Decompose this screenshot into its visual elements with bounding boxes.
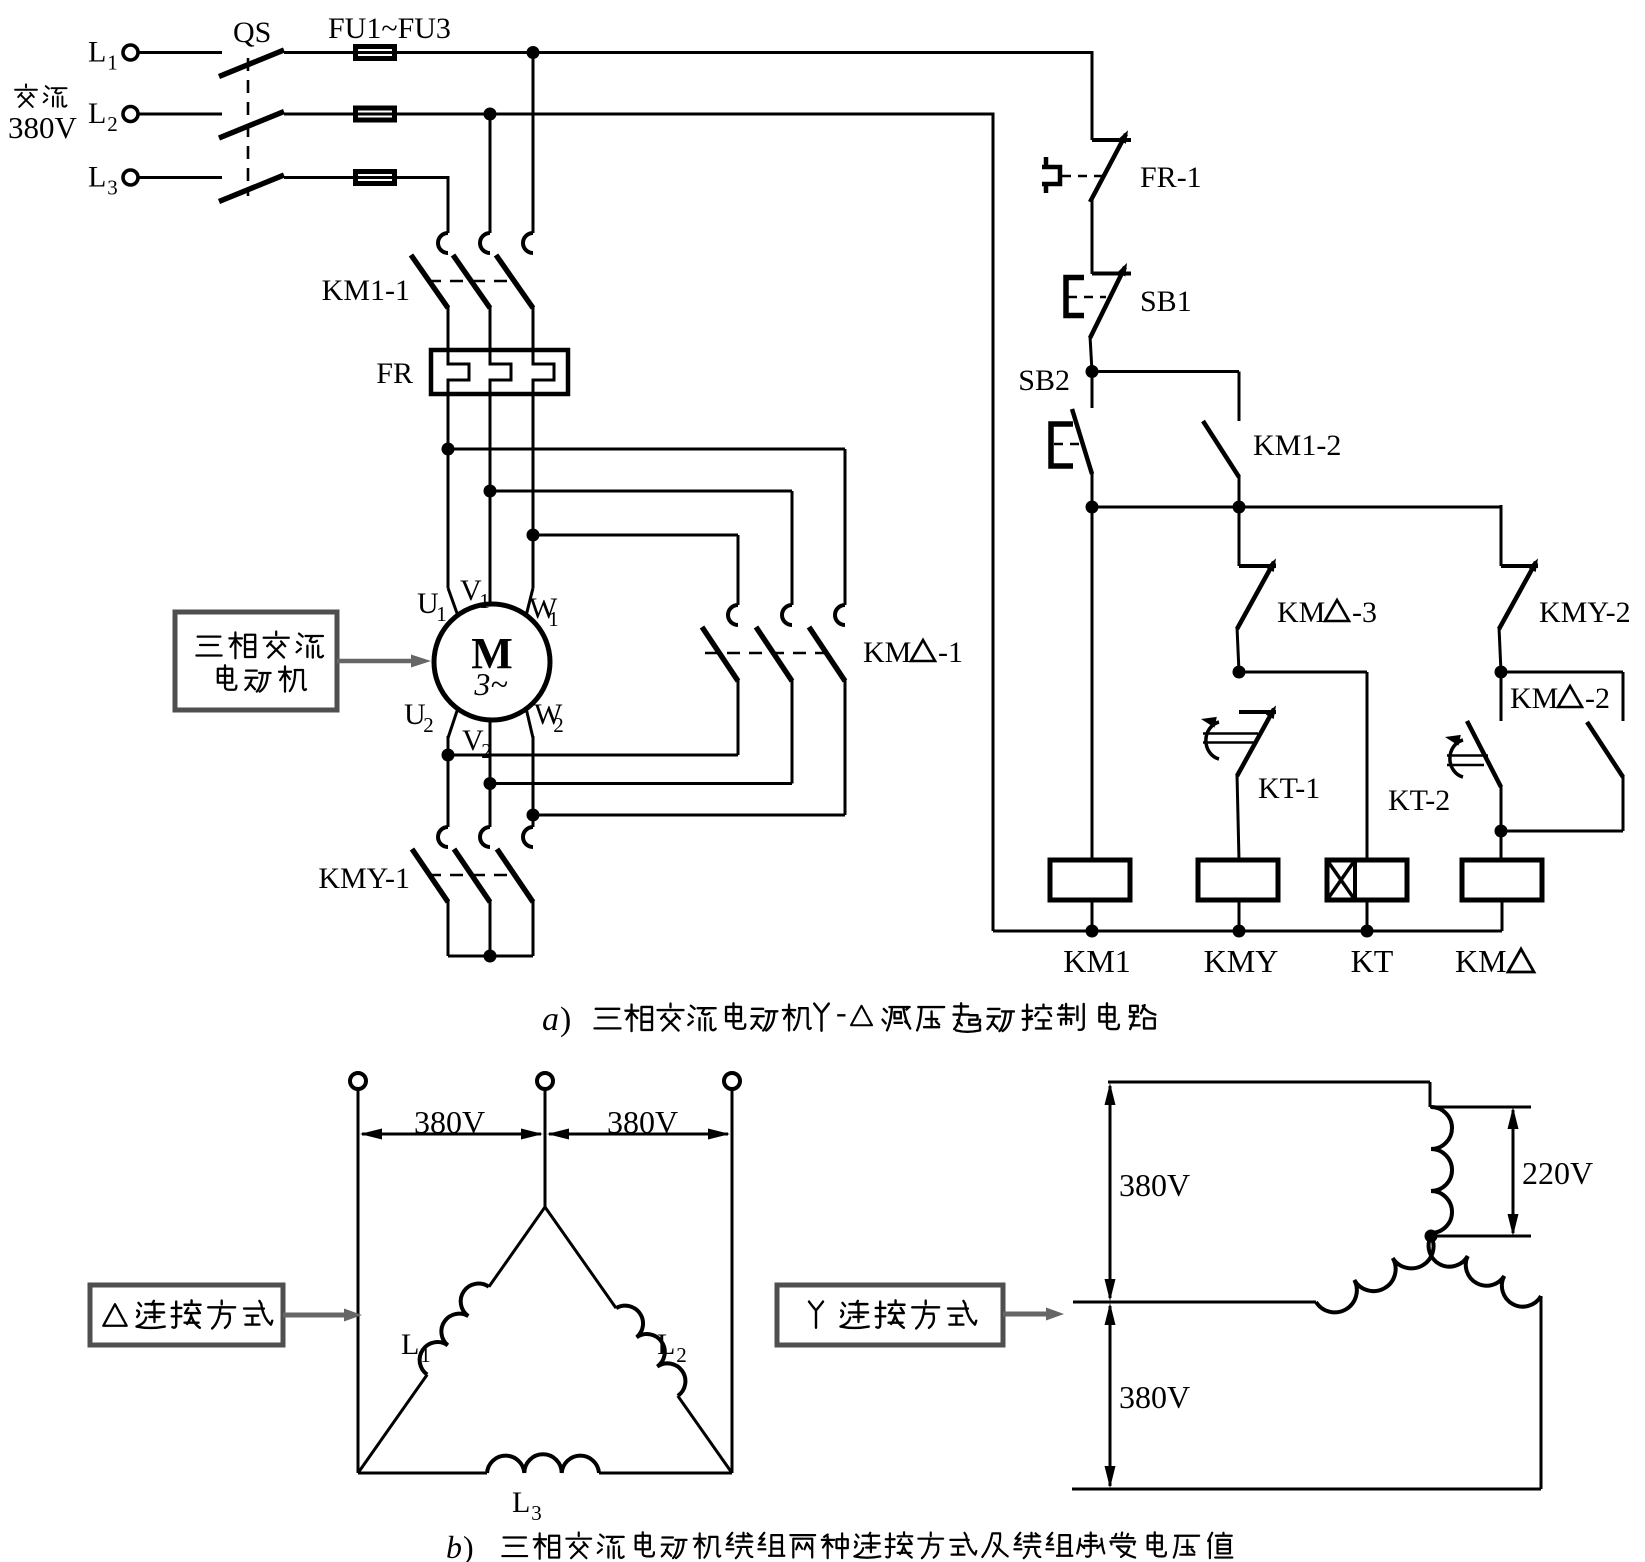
Y left line bbox=[1073, 1301, 1316, 1304]
node bus A2 bbox=[1233, 501, 1246, 514]
switch QS pole 3 bbox=[219, 175, 284, 202]
svg-text:FU1~FU3: FU1~FU3 bbox=[328, 12, 451, 45]
contactor KM1-1 pole blade bbox=[411, 255, 448, 308]
wire to KT coil bbox=[1239, 672, 1367, 860]
svg-text:FR-1: FR-1 bbox=[1140, 161, 1202, 194]
pushbutton SB2 actuator bbox=[1051, 424, 1073, 466]
wire L3 to QS bbox=[138, 176, 222, 179]
wire KM1-1 to FR bbox=[489, 306, 492, 352]
label KM1-1 bbox=[322, 274, 410, 307]
contactor KM1-1 pole blade bbox=[496, 255, 533, 308]
label KT bbox=[1351, 943, 1394, 979]
svg-text:380V: 380V bbox=[607, 1104, 678, 1140]
svg-text:380V: 380V bbox=[8, 110, 78, 145]
contact KMdelta-3 seat bbox=[1239, 564, 1276, 568]
node W2 branch bbox=[527, 809, 540, 822]
wire SB1 to SB2 bbox=[1090, 336, 1092, 372]
label 380V lower bbox=[1119, 1379, 1190, 1415]
svg-text:KM: KM bbox=[863, 636, 911, 669]
wire L1 bus bbox=[397, 51, 1092, 54]
label KMdelta-2 bbox=[1510, 682, 1610, 715]
wire V1 bbox=[489, 392, 492, 605]
wire to KMdelta-2 bbox=[1501, 672, 1623, 721]
label box 三相交流电动机 bbox=[175, 612, 337, 710]
svg-text:KT: KT bbox=[1351, 943, 1394, 979]
wire KT-2 bottom bbox=[1500, 785, 1503, 831]
contact FR-1 seat bbox=[1092, 138, 1131, 142]
node bus A1 bbox=[1086, 501, 1099, 514]
svg-text:-1: -1 bbox=[938, 636, 963, 669]
wire V2 bbox=[489, 719, 492, 827]
svg-text:SB2: SB2 bbox=[1018, 364, 1070, 397]
svg-text:L: L bbox=[88, 97, 106, 130]
svg-text:KMY: KMY bbox=[1204, 943, 1279, 979]
wire control left rail bbox=[992, 113, 995, 932]
svg-text:KT-2: KT-2 bbox=[1388, 784, 1450, 817]
label 交流380V bbox=[8, 84, 78, 145]
wire W2 to KMdelta-1 pole3 bottom bbox=[533, 814, 845, 817]
svg-text:L: L bbox=[88, 36, 106, 69]
wire QS to FU2 bbox=[284, 113, 353, 116]
wire U2 bbox=[448, 708, 458, 827]
contactor KMY-1 linkage dashed bbox=[428, 874, 516, 877]
switch QS linkage dashed bbox=[247, 58, 250, 196]
wire W1 bbox=[526, 392, 533, 616]
pushbutton SB1 actuator bbox=[1066, 278, 1084, 316]
wire bus A bbox=[1092, 507, 1501, 566]
contactor KMdelta-1 pole blade bbox=[756, 627, 792, 681]
contactor KMY-1 pole hook bbox=[523, 827, 533, 847]
svg-text:L: L bbox=[512, 1486, 530, 1519]
label KMdelta-3 bbox=[1277, 596, 1377, 629]
dashed link FR bbox=[1062, 175, 1106, 178]
svg-text:KT-1: KT-1 bbox=[1258, 772, 1320, 805]
wire KMY-2 top bbox=[1500, 505, 1503, 566]
svg-text:KM: KM bbox=[1510, 682, 1558, 715]
svg-text:1: 1 bbox=[420, 1343, 431, 1367]
dashed link SB1 bbox=[1068, 296, 1106, 299]
svg-text:-: - bbox=[836, 994, 847, 1030]
svg-text:1: 1 bbox=[548, 607, 559, 631]
wire to KMdelta coil bbox=[1500, 831, 1503, 860]
delay symbol KT-2 bbox=[1445, 735, 1488, 777]
Y top right step bbox=[1430, 1082, 1531, 1107]
svg-text:-3: -3 bbox=[1352, 596, 1377, 629]
wire KMY coil bottom bbox=[1238, 900, 1241, 931]
coil KT bbox=[1327, 860, 1407, 900]
wire drop phase W bbox=[532, 51, 535, 233]
Y right line bbox=[1540, 1296, 1543, 1489]
coil KMY bbox=[1198, 860, 1278, 900]
svg-text:3: 3 bbox=[531, 1501, 542, 1525]
delta terminal bbox=[537, 1073, 553, 1089]
svg-text:-2: -2 bbox=[1585, 682, 1610, 715]
contact FR-1 blade bbox=[1090, 130, 1128, 202]
svg-text:380V: 380V bbox=[1119, 1379, 1190, 1415]
svg-text:): ) bbox=[560, 1001, 571, 1038]
node star point bbox=[484, 950, 497, 963]
node V2 branch bbox=[484, 777, 497, 790]
wire KMdelta-1 pole bottom bbox=[737, 679, 740, 755]
delta terminal bbox=[724, 1073, 740, 1089]
wire KT-1 to KMY coil bbox=[1237, 774, 1239, 860]
label L3 bbox=[88, 161, 118, 200]
svg-text:): ) bbox=[463, 1529, 474, 1562]
wire SB2 bottom bbox=[1091, 472, 1094, 507]
contactor KMdelta-1 pole blade bbox=[809, 627, 845, 681]
label L1 winding bbox=[401, 1328, 431, 1367]
wire KMY-1 bottom bbox=[489, 900, 492, 956]
contact KT-1 blade bbox=[1237, 705, 1276, 776]
node V1 branch bbox=[484, 485, 497, 498]
contact SB2 blade bbox=[1072, 409, 1092, 474]
label V1 bbox=[460, 574, 490, 613]
label KM1-2 bbox=[1253, 429, 1341, 462]
terminal L1 bbox=[123, 45, 138, 60]
svg-text:2: 2 bbox=[423, 713, 434, 737]
Y winding 1 bbox=[1431, 1107, 1452, 1233]
label SB2 bbox=[1018, 364, 1070, 397]
wire V1 to KMdelta-1 pole2 bbox=[490, 491, 792, 605]
Y winding 3 bbox=[1429, 1236, 1541, 1307]
svg-text:KM: KM bbox=[1277, 596, 1325, 629]
contactor KMdelta-1 pole hook bbox=[782, 605, 792, 625]
dim 380V lower bbox=[1105, 1303, 1116, 1488]
svg-text:2: 2 bbox=[107, 112, 118, 136]
wire V2 to KMdelta-1 pole2 bottom bbox=[490, 782, 792, 785]
svg-text:380V: 380V bbox=[414, 1104, 485, 1140]
label 380V upper bbox=[1119, 1167, 1190, 1203]
label 380V right bbox=[607, 1104, 678, 1140]
wire KT coil bottom bbox=[1366, 900, 1369, 931]
svg-text:KMY-2: KMY-2 bbox=[1539, 596, 1631, 629]
label U2 bbox=[404, 698, 434, 737]
contactor KMY-1 pole blade bbox=[497, 849, 533, 902]
label FR bbox=[376, 357, 413, 390]
coil KMdelta bbox=[1462, 860, 1542, 900]
svg-text:KMY-1: KMY-1 bbox=[318, 862, 410, 895]
label L2 winding bbox=[657, 1328, 687, 1367]
svg-text:2: 2 bbox=[676, 1343, 687, 1367]
thermal trip symbol FR bbox=[1042, 157, 1060, 193]
Y node bbox=[1425, 1230, 1438, 1243]
svg-text:L: L bbox=[657, 1328, 675, 1361]
svg-text:SB1: SB1 bbox=[1140, 285, 1192, 318]
contactor KM1-1 pole fixed hook bbox=[438, 233, 448, 253]
label U1 bbox=[417, 587, 447, 626]
label W2 bbox=[534, 698, 564, 737]
motor M circle bbox=[434, 604, 550, 720]
wire QS to FU1 bbox=[284, 51, 353, 54]
delta winding L3 bbox=[358, 1454, 732, 1473]
contactor KMdelta-1 pole hook bbox=[728, 605, 738, 625]
contact KMdelta-2 blade bbox=[1587, 722, 1623, 777]
wire W2 bbox=[526, 708, 533, 827]
wire KMdelta-3 bottom bbox=[1237, 627, 1239, 672]
contactor KM1-1 linkage dashed bbox=[428, 280, 516, 283]
wire L1 to QS bbox=[138, 51, 222, 54]
wire L2 bus bbox=[397, 113, 993, 116]
contactor KMY-1 pole blade bbox=[412, 849, 448, 902]
wire drop phase U bbox=[447, 176, 450, 233]
contactor KM1-1 pole fixed hook bbox=[480, 233, 490, 253]
label W1 bbox=[529, 592, 559, 631]
contact KMY-2 blade bbox=[1499, 558, 1538, 629]
label L3 winding bbox=[512, 1486, 542, 1525]
dim 380V left bbox=[360, 1129, 543, 1140]
wire KMdelta-1 pole bottom bbox=[791, 679, 794, 784]
wire U1 bbox=[448, 392, 458, 616]
label L1 bbox=[88, 36, 118, 75]
svg-text:380V: 380V bbox=[1119, 1167, 1190, 1203]
node W1 branch bbox=[527, 529, 540, 542]
wire KMY-1 bottom bbox=[532, 900, 535, 956]
thermal relay FR heater element bbox=[490, 352, 511, 392]
label box Y connect bbox=[777, 1285, 1003, 1345]
node KT branch bbox=[1233, 666, 1246, 679]
wire QS to FU3 bbox=[284, 176, 353, 179]
svg-text:3~: 3~ bbox=[473, 666, 507, 702]
label KM1 bbox=[1063, 943, 1131, 979]
wire KM1-1 to FR bbox=[532, 306, 535, 352]
coil KM1 bbox=[1050, 860, 1130, 900]
contact KM1-2 blade bbox=[1203, 421, 1239, 477]
svg-text:QS: QS bbox=[233, 16, 271, 49]
node KMdelta coil top bbox=[1495, 825, 1508, 838]
delay symbol KT-1 bbox=[1201, 717, 1258, 759]
node SB2 top bbox=[1086, 365, 1099, 378]
wire L2 to QS bbox=[138, 113, 222, 116]
svg-text:b: b bbox=[446, 1529, 462, 1562]
svg-text:1: 1 bbox=[107, 51, 118, 75]
contactor KMdelta-1 pole hook bbox=[835, 605, 845, 625]
terminal L2 bbox=[123, 107, 138, 122]
Y top line bbox=[1108, 1081, 1430, 1084]
caption b) bbox=[446, 1529, 1232, 1562]
node L1/KM branch bbox=[527, 46, 540, 59]
wire KMdelta coil bottom bbox=[1501, 900, 1504, 931]
label box delta connect bbox=[90, 1285, 283, 1345]
wire drop phase V bbox=[489, 113, 492, 234]
wire KMY-2 bottom bbox=[1499, 627, 1501, 672]
wire KMY-1 bottom bbox=[447, 900, 450, 956]
label 220V bbox=[1522, 1155, 1593, 1191]
terminal L3 bbox=[123, 170, 138, 185]
switch QS pole 1 bbox=[219, 50, 284, 77]
Y bottom line bbox=[1072, 1488, 1541, 1491]
fuse FU2 bbox=[353, 108, 397, 120]
fuse FU1 bbox=[353, 47, 397, 59]
wire KMdelta-2 bottom bbox=[1501, 775, 1623, 831]
label KMdelta bbox=[1455, 943, 1534, 979]
delta terminal bbox=[350, 1073, 366, 1089]
svg-text:3: 3 bbox=[107, 176, 118, 200]
contact KT-2 blade bbox=[1467, 721, 1501, 787]
label KMY-1 bbox=[318, 862, 410, 895]
wire KM1-2 bottom bbox=[1238, 475, 1241, 507]
node KMY bottom bbox=[1233, 925, 1246, 938]
node KM1 bottom bbox=[1086, 925, 1099, 938]
arrow Y bbox=[1003, 1308, 1064, 1321]
contactor KM1-1 pole blade bbox=[453, 255, 490, 308]
delta left lead bbox=[357, 1089, 360, 1473]
wire KMdelta-1 pole bottom bbox=[844, 679, 847, 815]
wire control right rail top bbox=[1091, 51, 1094, 140]
dim 220V bbox=[1508, 1107, 1519, 1236]
contact KMY-2 seat bbox=[1501, 564, 1538, 568]
svg-text:1: 1 bbox=[479, 589, 490, 613]
node KMdelta-2 branch bbox=[1495, 666, 1508, 679]
contactor KMdelta-1 linkage dashed bbox=[705, 652, 826, 655]
dim 380V right bbox=[547, 1129, 730, 1140]
label KMY bbox=[1204, 943, 1279, 979]
contact KT-1 seat bbox=[1239, 710, 1276, 714]
delta winding L1 bbox=[358, 1207, 545, 1473]
wire FR-1 to SB1 bbox=[1091, 200, 1094, 274]
node KT bottom bbox=[1361, 925, 1374, 938]
wire control bottom rail bbox=[993, 930, 1502, 933]
contactor KMdelta-1 pole blade bbox=[702, 627, 738, 681]
arrow delta bbox=[283, 1309, 362, 1322]
svg-text:220V: 220V bbox=[1522, 1155, 1593, 1191]
node L2/KM branch bbox=[484, 108, 497, 121]
thermal relay FR heater element bbox=[533, 352, 554, 392]
motor letter M bbox=[471, 629, 513, 678]
svg-text:1: 1 bbox=[436, 602, 447, 626]
wire KM1 coil bottom bbox=[1091, 900, 1094, 931]
delta winding L2 bbox=[545, 1207, 732, 1473]
thermal relay FR heater element bbox=[448, 352, 469, 392]
label KMY-2 bbox=[1539, 596, 1631, 629]
svg-text:FR: FR bbox=[376, 357, 413, 390]
wire W1 to KMdelta-1 pole1 bbox=[533, 535, 738, 605]
contact SB1 seat bbox=[1092, 272, 1131, 276]
svg-text:KM: KM bbox=[1455, 943, 1507, 979]
contactor KM1-1 pole fixed hook bbox=[523, 233, 533, 253]
label FU1~FU3 bbox=[328, 12, 451, 45]
contact SB1 blade bbox=[1090, 263, 1127, 338]
svg-text:KM1-1: KM1-1 bbox=[322, 274, 410, 307]
delta right lead bbox=[731, 1089, 734, 1473]
thermal relay FR box bbox=[431, 350, 568, 394]
caption a) bbox=[542, 994, 1155, 1038]
arrow to motor bbox=[337, 655, 431, 668]
delta mid lead bbox=[544, 1089, 547, 1207]
label FR-1 bbox=[1140, 161, 1202, 194]
wire SB2 top bbox=[1091, 372, 1094, 409]
contact KMdelta-3 blade bbox=[1237, 558, 1276, 629]
wire KMdelta-3 top bbox=[1238, 507, 1241, 566]
wire KT-2 top bbox=[1500, 672, 1503, 721]
dim 380V upper bbox=[1105, 1083, 1116, 1301]
label SB1 bbox=[1140, 285, 1192, 318]
label V2 bbox=[462, 724, 492, 763]
motor 3~ bbox=[473, 666, 507, 702]
wire U1 to KMdelta-1 pole3 bbox=[448, 449, 845, 605]
svg-text:L: L bbox=[401, 1328, 419, 1361]
contactor KMY-1 pole hook bbox=[480, 827, 490, 847]
label KMdelta-1 bbox=[863, 636, 963, 669]
wire U2 to KMdelta-1 pole1 bottom bbox=[448, 754, 738, 757]
Y node line right bbox=[1431, 1235, 1531, 1238]
node U2 branch bbox=[442, 749, 455, 762]
label KT-2 bbox=[1388, 784, 1450, 817]
dashed link SB2 bbox=[1054, 443, 1086, 446]
label KT-1 bbox=[1258, 772, 1320, 805]
contactor KMY-1 pole hook bbox=[438, 827, 448, 847]
Y winding 2 bbox=[1316, 1236, 1434, 1312]
svg-text:KM1: KM1 bbox=[1063, 943, 1131, 979]
svg-text:KM1-2: KM1-2 bbox=[1253, 429, 1341, 462]
fuse FU3 bbox=[353, 172, 397, 184]
switch QS pole 2 bbox=[219, 112, 284, 139]
svg-text:2: 2 bbox=[553, 713, 564, 737]
wire to KM1 coil bbox=[1091, 507, 1094, 860]
label 380V left bbox=[414, 1104, 485, 1140]
label QS bbox=[233, 16, 271, 49]
wire L3 to drop bbox=[397, 176, 448, 179]
contactor KMY-1 pole blade bbox=[454, 849, 490, 902]
wire KM1-1 to FR bbox=[447, 306, 450, 352]
svg-text:L: L bbox=[88, 161, 106, 194]
svg-text:a: a bbox=[542, 1001, 559, 1038]
node U1 branch bbox=[442, 443, 455, 456]
label L2 bbox=[88, 97, 118, 136]
wire to KM1-2 bbox=[1092, 372, 1239, 422]
wire KMY-1 star bar bbox=[448, 955, 533, 958]
